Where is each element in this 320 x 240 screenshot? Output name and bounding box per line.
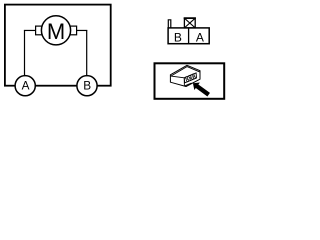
wire right horizontal stub bbox=[76, 29, 87, 31]
svg-text:A: A bbox=[22, 78, 30, 92]
connector icon terminals bbox=[185, 74, 195, 82]
pointer arrow bbox=[190, 79, 211, 98]
connector tab bbox=[168, 20, 171, 28]
legend box bbox=[155, 63, 225, 99]
wire left vertical (motor to A) bbox=[24, 30, 26, 76]
svg-text:M: M bbox=[47, 19, 65, 44]
svg-text:B: B bbox=[174, 30, 182, 44]
connector lock (box with X) bbox=[184, 18, 195, 28]
terminal B bbox=[77, 76, 97, 96]
terminal A bbox=[15, 76, 35, 96]
wire right vertical (motor to B) bbox=[86, 30, 88, 76]
motor M1 bbox=[41, 16, 70, 45]
connector icon terminal face bbox=[184, 73, 196, 83]
connector divider bbox=[188, 28, 190, 44]
wire left horizontal stub bbox=[24, 29, 36, 31]
outer test-circuit box bbox=[5, 5, 111, 86]
motor brush right bbox=[69, 26, 76, 35]
svg-text:B: B bbox=[83, 78, 91, 92]
connector icon housing bbox=[170, 65, 200, 86]
motor brush left bbox=[36, 26, 43, 35]
connector body bbox=[168, 28, 209, 44]
connector icon lower front edge bbox=[184, 83, 191, 86]
svg-text:A: A bbox=[196, 30, 204, 44]
